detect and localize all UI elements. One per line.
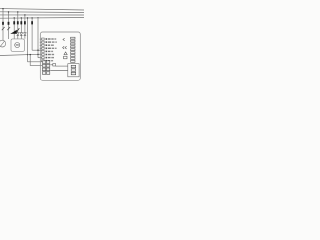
pin 3 xyxy=(42,44,54,46)
wire drop 7 xyxy=(27,18,29,62)
relay wedge K1 xyxy=(10,30,17,34)
relay contact c xyxy=(71,72,76,75)
wire drop 9 xyxy=(37,18,39,58)
wire net G xyxy=(50,70,68,72)
node junction B xyxy=(30,54,31,55)
wire bus line 2 xyxy=(0,11,84,14)
diode D3 xyxy=(24,33,27,36)
pin 2 xyxy=(42,41,57,43)
wire bus line 3 xyxy=(0,14,84,16)
pin 4 xyxy=(42,47,57,49)
pin 8 xyxy=(42,60,54,62)
relay contact a xyxy=(71,65,76,68)
node marks inside U1 xyxy=(63,46,67,49)
transistor symbol xyxy=(64,52,67,55)
node junction E xyxy=(27,54,28,55)
wire drop 2 xyxy=(8,12,10,39)
fuse F1 xyxy=(2,22,4,25)
wire drop 4 xyxy=(17,12,19,39)
fuse F4 xyxy=(17,21,19,24)
terminal block TB1 xyxy=(42,61,49,74)
relay contact b xyxy=(71,69,76,72)
wire drop 8 xyxy=(31,18,33,50)
pin 1 xyxy=(42,38,57,40)
pin 6 xyxy=(42,54,55,56)
diode D2 xyxy=(20,33,23,36)
wire drop 6 xyxy=(24,15,26,39)
wire drop 3 xyxy=(13,18,15,39)
switch S2 xyxy=(7,27,10,30)
fuse F5 xyxy=(20,21,22,24)
wire bus line 1 xyxy=(0,9,84,10)
capacitor symbol xyxy=(64,56,67,59)
meter M1 xyxy=(0,40,6,47)
node mark arrow xyxy=(63,38,65,41)
wire net D xyxy=(38,57,42,59)
node junction D xyxy=(37,54,38,55)
pin 5 xyxy=(42,50,54,52)
fuse F2 xyxy=(8,22,10,25)
switch S3 xyxy=(17,28,20,31)
wire drop 1 xyxy=(2,9,4,41)
control unit U1 xyxy=(40,32,80,80)
switch S1 xyxy=(2,27,5,30)
wire net A xyxy=(0,54,42,55)
resistor R10 xyxy=(50,64,52,66)
lamp L1 xyxy=(11,39,24,51)
node junction C xyxy=(37,50,38,51)
wire net B xyxy=(30,55,42,66)
wire net C xyxy=(32,49,42,51)
wire drop 5 xyxy=(20,18,22,39)
fuse F7 xyxy=(31,21,33,24)
wire net F xyxy=(56,65,68,67)
pin stubs xyxy=(40,39,42,48)
junction dots xyxy=(2,8,38,19)
diode D1 xyxy=(16,33,19,36)
fuse F3 xyxy=(13,21,15,24)
wire bus line 4 xyxy=(0,17,84,20)
pin 7 xyxy=(42,57,54,59)
fuse F6 xyxy=(24,21,26,24)
wire net E xyxy=(28,61,42,63)
connector J1 ladder xyxy=(71,37,75,62)
relay K2 box xyxy=(68,64,79,77)
